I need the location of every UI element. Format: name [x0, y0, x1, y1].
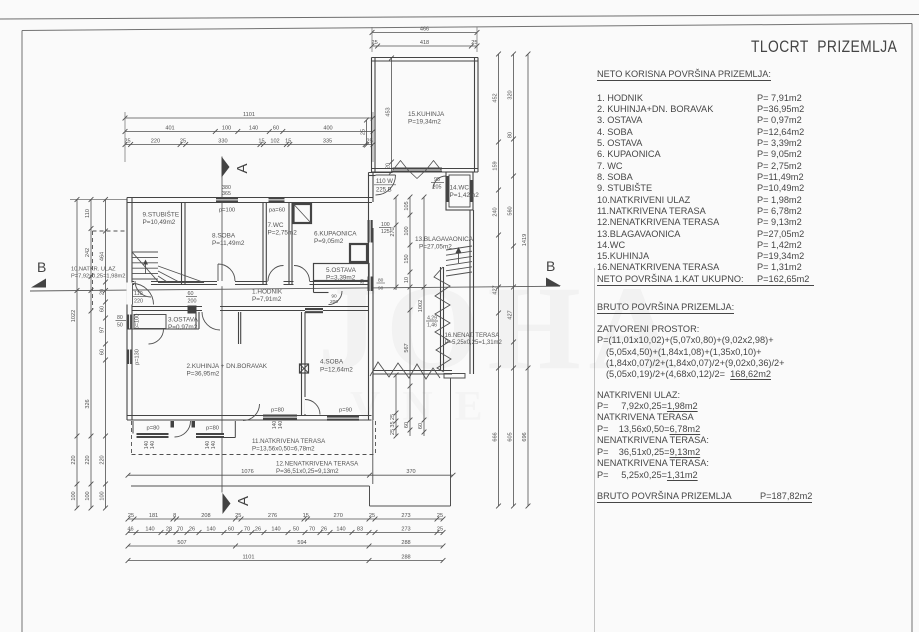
main block right wall [368, 173, 370, 421]
svg-text:P=9,05m2: P=9,05m2 [314, 238, 344, 245]
svg-text:9.STUBIŠTE: 9.STUBIŠTE [143, 210, 180, 219]
total row NETO POVRSINA 1.KAT UKUPNO [597, 274, 814, 286]
porch window sill 2 [196, 433, 224, 438]
dimension line 1101 top [123, 112, 376, 121]
window bottom wall 4 p=90 [327, 416, 359, 421]
entry door left wall [133, 284, 154, 305]
svg-text:8: 8 [173, 513, 176, 519]
terasa11 dashed boundary [132, 454, 376, 456]
svg-text:288: 288 [401, 554, 410, 560]
middle dimension column 270-25-35-25 [390, 195, 398, 290]
heading NETO KORISNA POVRSINA PRIZEMLJA [597, 69, 771, 81]
closed space formulas [597, 324, 699, 334]
main block bottom wall [127, 415, 372, 417]
svg-text:B: B [546, 258, 555, 274]
svg-text:16.NENAT. TERASA: 16.NENAT. TERASA [445, 333, 500, 339]
stairs stubiste [132, 251, 158, 253]
svg-text:90: 90 [378, 286, 384, 292]
svg-text:105: 105 [404, 201, 410, 210]
svg-text:p=100: p=100 [219, 208, 235, 214]
svg-text:26: 26 [255, 526, 261, 532]
svg-text:P=19,34m2: P=19,34m2 [408, 119, 441, 126]
tub kupaonica [350, 244, 367, 262]
svg-text:4,29: 4,29 [427, 316, 437, 322]
svg-text:P=12,64m2: P=12,64m2 [320, 367, 353, 374]
svg-text:3.OSTAVA: 3.OSTAVA [168, 317, 199, 324]
stairs blagavaonica [446, 272, 472, 276]
svg-text:140: 140 [145, 526, 154, 532]
svg-text:95: 95 [434, 177, 440, 183]
porch left edge [132, 421, 134, 434]
svg-text:P=11,49m2: P=11,49m2 [212, 240, 245, 247]
svg-text:97: 97 [100, 327, 106, 333]
partition soba-wc [262, 203, 264, 285]
svg-text:220: 220 [85, 455, 91, 464]
svg-text:270: 270 [390, 227, 396, 236]
svg-text:1419: 1419 [522, 234, 528, 246]
svg-text:p=90: p=90 [339, 408, 352, 414]
kitchen15 window zigzag [393, 161, 441, 179]
window kitchen15 bottom [393, 168, 443, 173]
bottom dimension line 507-594-288 [126, 540, 446, 549]
door boravak-terrace [243, 404, 260, 421]
svg-text:208: 208 [201, 513, 210, 519]
svg-text:60: 60 [228, 526, 234, 532]
svg-text:B: B [37, 259, 46, 275]
svg-text:370: 370 [406, 469, 415, 475]
svg-text:452: 452 [493, 93, 499, 102]
svg-text:13.BLAGAVAONICA: 13.BLAGAVAONICA [415, 236, 474, 243]
svg-text:P=3,39m2: P=3,39m2 [326, 275, 356, 282]
svg-text:6.KUPAONICA: 6.KUPAONICA [314, 231, 357, 238]
svg-text:25: 25 [471, 40, 477, 46]
porch pillar 2 [192, 421, 196, 428]
small dimension 25 left of kitchen [361, 118, 369, 148]
svg-text:20: 20 [100, 289, 106, 295]
right dimension column 1419-696 [522, 52, 530, 509]
svg-text:50: 50 [117, 323, 123, 329]
middle dimension column 1002-60 [418, 195, 426, 436]
svg-text:401: 401 [165, 125, 174, 131]
svg-text:427: 427 [508, 310, 514, 319]
svg-text:80: 80 [378, 278, 384, 284]
svg-text:15: 15 [303, 513, 309, 519]
svg-text:60: 60 [273, 125, 279, 131]
area table [597, 0, 857, 1]
svg-text:80: 80 [117, 315, 123, 321]
svg-text:453: 453 [386, 107, 392, 116]
svg-text:1.HODNIK: 1.HODNIK [252, 289, 283, 296]
room 3 ostava walls [127, 328, 199, 330]
section line A-A vertical [221, 157, 223, 493]
svg-text:220: 220 [134, 299, 143, 305]
watermark [318, 261, 683, 394]
window top wall pa=60 [269, 197, 285, 203]
door wing entry [376, 175, 396, 195]
svg-text:140: 140 [278, 421, 284, 430]
svg-text:25: 25 [361, 129, 367, 135]
dimension line 401-100-140-60-400 [123, 125, 376, 134]
svg-text:P=2,75m2: P=2,75m2 [268, 230, 298, 237]
svg-text:p=100: p=100 [135, 314, 141, 330]
svg-text:1076: 1076 [241, 469, 253, 475]
svg-text:181: 181 [149, 513, 158, 519]
porch pillar 1 [171, 421, 175, 428]
kitchen15 walls [372, 57, 479, 59]
svg-text:A: A [234, 163, 251, 173]
svg-text:418: 418 [420, 40, 429, 46]
svg-text:P=7,92x0,25=1,98m2: P=7,92x0,25=1,98m2 [71, 274, 125, 280]
svg-text:70: 70 [309, 526, 315, 532]
wing bottom wall [373, 370, 452, 372]
svg-text:11.NATKRIVENA TERASA: 11.NATKRIVENA TERASA [252, 438, 326, 445]
door soba4 [305, 400, 320, 415]
door wc7 [268, 266, 284, 282]
extension lines top dims [124, 112, 126, 162]
svg-text:P=5,25x0,25=1,31m2: P=5,25x0,25=1,31m2 [445, 340, 503, 346]
kitchen-dining wall stub [238, 312, 240, 344]
svg-text:110: 110 [134, 291, 143, 297]
section line B-B horizontal [30, 286, 560, 291]
svg-text:666: 666 [493, 432, 499, 441]
title TLOCRT PRIZEMLJA [751, 38, 897, 57]
svg-text:46: 46 [127, 526, 133, 532]
svg-text:288: 288 [401, 540, 410, 546]
section marker A top flag [222, 157, 230, 178]
terrace outline line [131, 485, 370, 487]
shower kupaonica [294, 204, 312, 223]
door ostava3 [149, 329, 164, 344]
svg-text:P=36,51x0,25=9,13m2: P=36,51x0,25=9,13m2 [276, 468, 339, 475]
window right wall small [368, 277, 373, 292]
main block left wall [126, 198, 128, 421]
middle dimension column 105-100-150-10-567-60 [404, 195, 412, 436]
door wc14 [433, 176, 446, 189]
terrace bottom step [369, 486, 371, 506]
svg-text:P=7,91m2: P=7,91m2 [252, 296, 282, 303]
svg-text:110: 110 [85, 209, 91, 218]
svg-text:10: 10 [404, 277, 410, 283]
partition stubiste-soba [181, 203, 183, 285]
wc14 walls [446, 172, 473, 210]
page inner frame left [21, 31, 23, 632]
svg-text:5.OSTAVA: 5.OSTAVA [326, 267, 357, 274]
right dimension column 320-80-560-427-605 [508, 52, 516, 509]
svg-text:25: 25 [369, 513, 375, 519]
natkriveni ulaz calc [597, 390, 680, 400]
svg-text:14.WC: 14.WC [450, 185, 470, 192]
svg-text:330: 330 [218, 138, 227, 144]
porch door arc [175, 421, 191, 437]
porch dashed lines [92, 231, 94, 309]
svg-text:1022: 1022 [71, 310, 77, 322]
dark flue box at corridor wall [188, 306, 197, 314]
svg-text:70: 70 [177, 526, 183, 532]
svg-text:P=0,97m2: P=0,97m2 [168, 324, 198, 331]
svg-text:90: 90 [331, 294, 337, 300]
svg-text:335: 335 [323, 138, 332, 144]
svg-text:60: 60 [188, 291, 194, 297]
svg-text:464: 464 [100, 252, 106, 261]
window top wall p=100 [216, 197, 238, 203]
dimension line 25-418-25 kitchen [370, 40, 480, 49]
svg-text:507: 507 [177, 540, 186, 546]
svg-text:pa=60: pa=60 [269, 208, 285, 214]
svg-text:P=1,42m2: P=1,42m2 [450, 192, 480, 199]
partition boravak-soba4 [301, 312, 303, 416]
svg-text:25: 25 [180, 138, 186, 144]
corridor south wall [132, 306, 369, 308]
dimension line 466 kitchen top [370, 26, 480, 35]
svg-text:12.NENATKRIVENA TERASA: 12.NENATKRIVENA TERASA [276, 461, 359, 468]
svg-text:1002: 1002 [418, 300, 424, 312]
bottom dimension line 46-140-28-70-26-140-60-70-25-140-50-70-26-140-83-273-25 [126, 526, 446, 535]
svg-text:1101: 1101 [242, 554, 254, 560]
svg-text:p=130: p=130 [135, 349, 141, 365]
svg-text:50: 50 [293, 526, 299, 532]
svg-text:P=27,05m2: P=27,05m2 [419, 244, 452, 251]
porch right edge [234, 421, 236, 438]
page inner frame top [22, 24, 912, 31]
svg-text:80: 80 [508, 132, 514, 138]
svg-text:140: 140 [150, 441, 156, 450]
page outer border line [0, 15, 919, 20]
window bottom wall 3 [263, 415, 297, 420]
svg-text:25: 25 [437, 513, 443, 519]
room 5 ostava walls [314, 264, 370, 281]
svg-text:30: 30 [360, 279, 366, 285]
svg-text:140: 140 [336, 526, 345, 532]
svg-text:242: 242 [85, 248, 91, 257]
terasa16 zigzag [434, 267, 451, 372]
bottom dimension line 25-181-8-208-25-276-15-270-25-273-25 [126, 513, 446, 522]
svg-text:25: 25 [390, 429, 396, 435]
svg-text:100: 100 [85, 491, 91, 500]
svg-text:25: 25 [235, 513, 241, 519]
ostava 3 counter [134, 315, 166, 329]
svg-text:P=13,56x0,50=6,78m2: P=13,56x0,50=6,78m2 [252, 446, 315, 453]
svg-text:220: 220 [151, 138, 160, 144]
svg-text:26: 26 [321, 526, 327, 532]
svg-text:28: 28 [166, 526, 172, 532]
svg-text:26: 26 [189, 526, 195, 532]
svg-text:A: A [235, 496, 252, 506]
top rooms south wall [132, 281, 369, 283]
svg-text:200: 200 [188, 299, 197, 305]
svg-text:25: 25 [437, 526, 443, 532]
svg-text:326: 326 [85, 399, 91, 408]
chimney box with X [300, 364, 309, 373]
svg-text:4.SOBA: 4.SOBA [320, 359, 344, 366]
terasa16 left wall [440, 267, 442, 371]
wing right wall [469, 210, 471, 374]
svg-text:270: 270 [334, 513, 343, 519]
left dimension column 464-small [100, 197, 108, 510]
svg-text:140: 140 [271, 526, 280, 532]
door corridor-kitchen [202, 312, 220, 330]
svg-text:605: 605 [508, 432, 514, 441]
svg-text:100: 100 [404, 226, 410, 235]
porch window sill 1 [137, 433, 169, 438]
svg-text:205: 205 [433, 185, 442, 191]
right dimension column 452-159-240-427-666 [493, 52, 501, 509]
svg-text:P=10,49m2: P=10,49m2 [143, 219, 176, 226]
svg-text:100: 100 [71, 491, 77, 500]
svg-text:594: 594 [297, 540, 306, 546]
bruto total [597, 491, 812, 503]
door kupaonica [294, 266, 310, 282]
left dimension column 1022-220-100 [71, 197, 79, 510]
svg-text:560: 560 [508, 206, 514, 215]
svg-text:240: 240 [493, 207, 499, 216]
svg-text:100: 100 [222, 125, 231, 131]
svg-text:15.KUHINJA: 15.KUHINJA [408, 111, 445, 118]
svg-text:83: 83 [357, 526, 363, 532]
svg-text:35: 35 [390, 421, 396, 427]
svg-text:110 W: 110 W [376, 179, 393, 185]
svg-text:400: 400 [323, 125, 332, 131]
dimension line 25-220-25-330-15-102-15-335-25 [123, 138, 376, 147]
main block top wall [127, 197, 373, 199]
door opening gaps [134, 281, 151, 286]
door stubiste [135, 281, 151, 297]
wing step rect [444, 374, 465, 379]
svg-text:276: 276 [268, 513, 277, 519]
svg-text:125: 125 [381, 229, 390, 235]
svg-text:273: 273 [401, 526, 410, 532]
svg-text:8.SOBA: 8.SOBA [212, 233, 236, 240]
svg-text:P=36,95m2: P=36,95m2 [187, 371, 220, 378]
svg-text:60: 60 [100, 349, 106, 355]
section marker A bottom flag [223, 493, 231, 514]
svg-text:567: 567 [404, 343, 410, 352]
heading BRUTO POVRSINA PRIZEMLJA [597, 302, 734, 314]
window left wall p=130 [127, 350, 132, 365]
terrace long edge right [450, 378, 452, 506]
svg-text:220: 220 [71, 455, 77, 464]
wing bottom zigzag [370, 362, 440, 379]
window left wall p=100 [127, 315, 132, 329]
svg-text:220: 220 [100, 455, 106, 464]
svg-text:p=80: p=80 [146, 426, 159, 432]
page inner frame right [911, 24, 913, 632]
bottom dimension line 1101-288 [126, 554, 446, 563]
svg-text:25: 25 [390, 414, 396, 420]
fold crease line [594, 268, 596, 632]
svg-text:p=80: p=80 [206, 426, 219, 432]
svg-text:7.WC: 7.WC [268, 222, 284, 229]
svg-text:100: 100 [100, 491, 106, 500]
svg-text:150: 150 [404, 254, 410, 263]
svg-text:320: 320 [508, 90, 514, 99]
left dimension column 110-242-326-220-100 [85, 197, 93, 510]
svg-text:365: 365 [222, 191, 231, 197]
svg-text:10.NATKR. ULAZ: 10.NATKR. ULAZ [71, 267, 116, 273]
svg-text:140: 140 [211, 441, 217, 450]
svg-text:15: 15 [285, 138, 291, 144]
svg-text:25: 25 [128, 513, 134, 519]
svg-text:70: 70 [244, 526, 250, 532]
svg-text:60: 60 [100, 306, 106, 312]
svg-text:1101: 1101 [243, 112, 255, 118]
svg-text:2.KUHINJA + DN.BORAVAK: 2.KUHINJA + DN.BORAVAK [187, 363, 268, 370]
svg-text:102: 102 [270, 138, 279, 144]
svg-text:100: 100 [381, 222, 390, 228]
kitchen left dimension column 453-20 [386, 56, 394, 175]
svg-text:466: 466 [420, 26, 429, 32]
door soba6 [218, 264, 235, 281]
door ostava5 [329, 291, 343, 305]
svg-text:1,46: 1,46 [427, 323, 437, 329]
svg-text:159: 159 [493, 161, 499, 170]
svg-text:25: 25 [371, 40, 377, 46]
svg-text:273: 273 [401, 513, 410, 519]
svg-text:696: 696 [522, 432, 528, 441]
svg-text:60: 60 [418, 423, 424, 429]
window corridor wall [305, 308, 323, 313]
svg-text:140: 140 [206, 526, 215, 532]
svg-text:140: 140 [249, 125, 258, 131]
window right wall 100-125 [368, 220, 373, 243]
partition wc-kupaonica [288, 203, 290, 285]
svg-text:60: 60 [404, 422, 410, 428]
svg-text:225 B: 225 B [376, 188, 392, 194]
svg-text:15: 15 [258, 138, 264, 144]
dimension line 1076-370 [126, 469, 456, 478]
svg-text:p=80: p=80 [271, 408, 284, 414]
